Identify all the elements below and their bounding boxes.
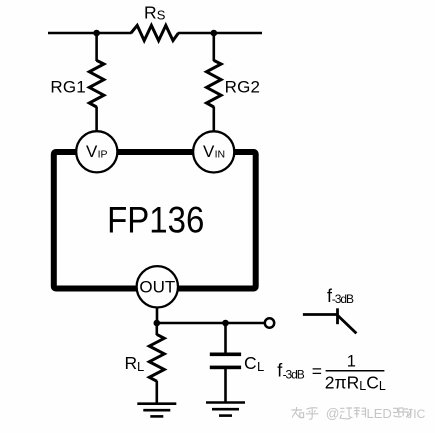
pin VIN circle (193, 131, 234, 172)
wire RG1 to VIP (95, 107, 98, 133)
watermark zhihu 知 (292, 407, 413, 419)
watermark latin (326, 406, 426, 421)
svg-text:V: V (86, 142, 98, 161)
wire CL to ground (224, 369, 227, 403)
svg-text:L: L (257, 359, 264, 374)
wire node to CL top plate (224, 323, 227, 353)
svg-text:V: V (203, 142, 215, 161)
node capacitor junction (222, 320, 229, 327)
wire OUT down to node (156, 307, 159, 323)
svg-text:IP: IP (98, 149, 108, 161)
bode plot icon horizontal line (303, 313, 338, 316)
svg-text:IN: IN (215, 149, 226, 161)
svg-text:FP136: FP136 (107, 200, 204, 241)
wire top rail left segment (48, 32, 132, 35)
pin OUT circle (137, 266, 178, 307)
bode plot icon rolloff diagonal (337, 315, 356, 334)
pin VIP circle (76, 131, 117, 172)
ground under RL (137, 402, 176, 405)
svg-text:OUT: OUT (139, 278, 175, 297)
bode plot icon corner tick (336, 308, 339, 324)
svg-text:RG2: RG2 (225, 77, 261, 96)
formula fraction bar (326, 370, 385, 372)
svg-text:-3dB: -3dB (332, 292, 354, 306)
svg-text:LED: LED (367, 406, 392, 421)
svg-text:L: L (137, 359, 144, 374)
svg-text:2πRLCL: 2πRLCL (325, 373, 386, 394)
svg-text:RG1: RG1 (50, 77, 86, 96)
svg-text:R: R (125, 353, 138, 373)
capacitor CL bottom plate (210, 366, 241, 370)
wire from left node down (95, 33, 98, 61)
svg-text:1: 1 (347, 353, 356, 371)
op-amp block FP136 box (54, 152, 256, 289)
resistor RG1 zigzag (89, 60, 104, 107)
wire output horizontal (157, 322, 265, 325)
resistor RG2 zigzag (207, 60, 222, 107)
svg-text:S: S (157, 8, 166, 23)
svg-text:=: = (312, 361, 322, 381)
resistor RS zigzag (131, 25, 178, 40)
output terminal open circle (265, 318, 274, 327)
svg-text:C: C (244, 353, 257, 373)
wire from right node down (213, 33, 216, 61)
wire RG2 to VIN (213, 107, 216, 133)
resistor RL zigzag (149, 334, 164, 381)
node output junction (154, 320, 161, 327)
wire node to RL (156, 323, 159, 335)
node junction left (93, 30, 100, 37)
svg-text:-3dB: -3dB (283, 368, 305, 382)
wire top rail right segment (178, 32, 262, 35)
node junction right (211, 30, 218, 37)
svg-text:@: @ (326, 406, 340, 421)
svg-text:R: R (144, 3, 157, 23)
capacitor CL top plate (210, 353, 241, 357)
wire RL to ground (156, 381, 159, 404)
ground under CL (206, 401, 245, 404)
svg-text:IC: IC (413, 407, 425, 421)
